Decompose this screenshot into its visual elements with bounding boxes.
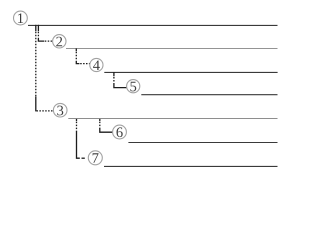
node 7 circle <box>88 151 102 165</box>
node 1 digit <box>18 13 23 23</box>
branch line of node 4 <box>104 71 277 73</box>
dotted horizontal wire into node 4 <box>80 63 89 65</box>
branch line of node 2 <box>66 48 278 50</box>
branch line of node 3 <box>68 118 277 120</box>
vertical tick pair below node 1 branch (solid tops) <box>36 25 39 31</box>
node 6 digit <box>117 127 123 137</box>
solid elbow and connector into node 6 <box>100 128 113 132</box>
dotted vertical wire from node 2 to node 4 <box>75 48 77 61</box>
dotted vertical wire from node 1 to node 2 <box>37 32 39 40</box>
dotted vertical wire from node 4 to node 5 <box>113 72 115 85</box>
branch line of node 6 <box>128 142 277 144</box>
node 2 circle <box>53 35 66 48</box>
dotted vertical wire from node 3 to node 7 <box>76 119 78 131</box>
solid elbow and connector into node 5 <box>114 85 127 88</box>
dotted horizontal wire into node 2 <box>45 40 53 42</box>
node 3 circle <box>53 103 67 117</box>
branch line of node 1 <box>28 24 278 26</box>
node 4 circle <box>90 58 103 71</box>
node 3 digit <box>57 106 63 116</box>
solid elbow into node 4 connector <box>76 61 79 64</box>
solid lower segment of wire to node 3 <box>35 97 37 112</box>
solid elbow into node 2 connector <box>38 39 44 41</box>
node 1 circle <box>14 11 28 25</box>
dotted vertical wire from node 3 to node 6 <box>99 119 101 128</box>
node 6 circle <box>113 125 127 139</box>
node 2 digit <box>56 37 62 47</box>
solid lower segment of wire to node 7 <box>77 131 80 158</box>
branch line of node 5 <box>141 94 277 96</box>
dotted vertical wire from node 1 down to node 3 <box>35 32 37 97</box>
node 4 digit <box>93 60 100 70</box>
dash of connector into node 7 <box>82 157 85 159</box>
node 7 digit <box>93 153 99 162</box>
node 5 digit <box>130 82 136 92</box>
branch line of node 7 <box>104 165 278 167</box>
node 5 circle <box>127 80 140 93</box>
dotted horizontal wire into node 3 <box>37 110 54 112</box>
